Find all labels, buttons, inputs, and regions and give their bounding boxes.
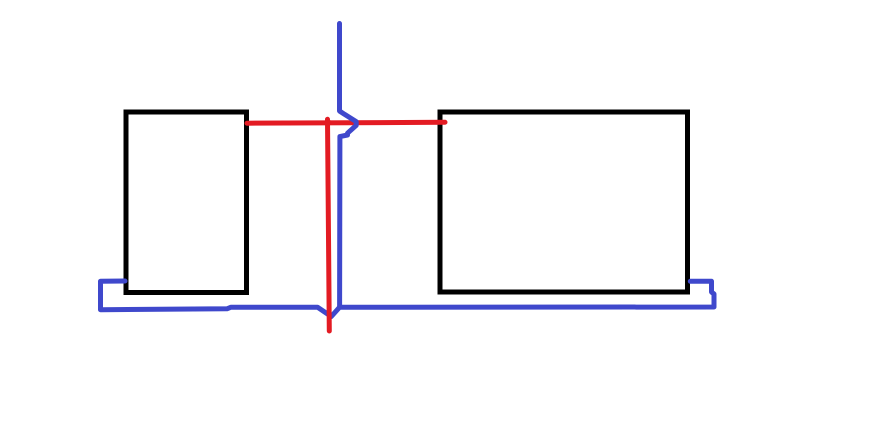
wire red horizontal <box>247 120 445 126</box>
block left (small rectangle) <box>126 112 247 293</box>
wire red vertical <box>328 119 330 331</box>
wire blue vertical with chevron <box>340 24 357 307</box>
wire blue bottom bracket <box>101 281 715 317</box>
block right (large rectangle) <box>440 112 688 292</box>
node junction red <box>324 119 331 126</box>
